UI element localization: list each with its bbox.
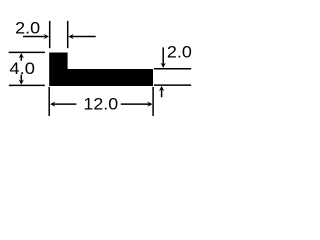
top dimension 2.0 : left arrowhead: [44, 34, 49, 39]
L-profile cross-section (filled black angle shape): [49, 53, 153, 87]
right dimension 2.0 : extension line top: [154, 68, 191, 70]
left dimension 4.0 : extension line top: [9, 51, 45, 53]
right dimension 2.0 : up arrow: [161, 89, 163, 97]
right dimension 2.0 : extension line bottom: [154, 84, 191, 86]
top dimension 2.0 : left leader line: [23, 36, 45, 38]
left dimension 4.0 : extension line bottom: [9, 84, 45, 86]
left dimension 4.0 : up arrow: [20, 56, 22, 60]
svg-text:12.0: 12.0: [83, 95, 118, 114]
svg-text:2.0: 2.0: [167, 42, 192, 61]
right dimension 2.0 : down arrow: [162, 47, 164, 64]
svg-text:2.0: 2.0: [15, 18, 40, 37]
top dimension 2.0 : extension line right: [67, 21, 69, 48]
bottom dimension 12.0 : extension line left: [48, 87, 50, 116]
bottom dimension 12.0 : extension line right: [152, 87, 154, 116]
top dimension 2.0 : extension line left: [49, 21, 51, 48]
top dimension 2.0 : right arrowhead: [68, 34, 73, 39]
bottom dimension 12.0 : right arrow: [121, 103, 149, 105]
top dimension 2.0 : right leader line: [72, 36, 96, 38]
svg-text:4.0: 4.0: [9, 59, 35, 78]
bottom dimension 12.0 : left arrow: [50, 102, 55, 107]
left dimension 4.0 : down arrow: [20, 75, 22, 82]
